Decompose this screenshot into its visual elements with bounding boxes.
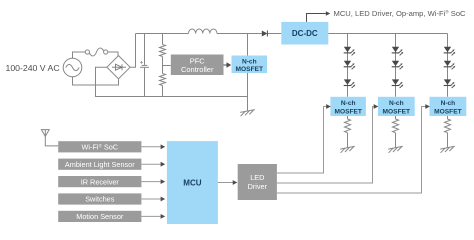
svg-text:MOSFET: MOSFET [383, 108, 410, 115]
wire LED driver out 3 [277, 107, 426, 194]
arrow Wi-Fi SoC to MCU [141, 144, 165, 149]
svg-text:MCU, LED Driver, Op-amp, Wi-Fi: MCU, LED Driver, Op-amp, Wi-Fi® SoC [334, 8, 467, 18]
svg-text:MOSFET: MOSFET [334, 108, 361, 115]
wire Q2 source [347, 116, 349, 119]
wire R5 to ground [447, 133, 449, 148]
wire LED string 1 [347, 34, 349, 97]
ground G1 [240, 110, 255, 117]
svg-text:100-240 V AC: 100-240 V AC [6, 63, 60, 73]
ground G4 [440, 146, 455, 153]
svg-text:Switches: Switches [85, 195, 115, 204]
arrow Switches to MCU [141, 197, 165, 202]
LED D10 [444, 61, 456, 70]
svg-text:Controller: Controller [181, 65, 214, 74]
arrow MCU to LED Driver [218, 180, 237, 185]
wire Q4 source [447, 116, 449, 119]
svg-text:N-ch: N-ch [242, 58, 257, 65]
resistor R5 [445, 119, 451, 133]
N-ch MOSFET Q2 [330, 97, 366, 116]
LED D5 [344, 79, 356, 88]
arrow Ambient Light Sensor to MCU [141, 162, 165, 167]
MCU U3 [167, 141, 218, 224]
wire Q3 source [395, 116, 397, 119]
block IR Receiver [58, 176, 141, 187]
wire bridge right vertex up to top rail [130, 34, 135, 68]
block Motion Sensor [58, 211, 141, 222]
wire bridge left vertex to ground rail [96, 67, 248, 96]
LED D9 [444, 47, 456, 56]
LED D3 [344, 47, 356, 56]
LED driver U4 [238, 164, 277, 200]
wire top rail right of DC-DC [328, 33, 447, 35]
svg-text:MCU: MCU [183, 178, 201, 187]
wire top rail right of inductor [217, 33, 262, 35]
arrow into Q3 [374, 104, 379, 109]
AC source V1 [63, 58, 82, 77]
svg-text:LED: LED [250, 173, 264, 182]
wire R4 to ground [395, 133, 397, 148]
svg-text:Motion Sensor: Motion Sensor [76, 212, 124, 221]
LED D6 [392, 47, 404, 56]
ground G3 [388, 146, 403, 153]
wire AC top to fuse [73, 52, 86, 58]
N-ch MOSFET Q4 [430, 97, 467, 116]
PFC controller U1 [171, 55, 224, 76]
bridge rectifier D1 [107, 56, 130, 79]
arrow elbow to annotation [307, 11, 331, 22]
svg-text:Driver: Driver [248, 182, 268, 191]
wire divider bottom [162, 86, 164, 97]
wire LED string 3 [447, 34, 449, 97]
DC-DC converter U2 [281, 22, 328, 45]
resistor R1 [160, 45, 166, 57]
bridge diode symbol [112, 64, 126, 70]
arrow IR Receiver to MCU [141, 179, 165, 184]
arrow PFC to MOSFET [224, 62, 232, 68]
wire LED string 2 [395, 34, 397, 97]
N-ch MOSFET Q1 [232, 56, 268, 74]
svg-text:N-ch: N-ch [341, 100, 356, 107]
diode D2 on top rail [262, 31, 282, 37]
wire LED driver out 2 [277, 107, 374, 184]
wire top rail left [136, 33, 189, 35]
block Switches [58, 193, 141, 204]
LED D8 [392, 79, 404, 88]
LED D4 [344, 61, 356, 70]
resistor R4 [393, 119, 399, 133]
svg-text:N-ch: N-ch [389, 100, 404, 107]
wire top rail into MOSFET Q1 [247, 34, 249, 56]
arrow into Q2 [326, 104, 331, 109]
svg-text:DC-DC: DC-DC [292, 29, 318, 38]
block Wi-Fi SoC [58, 141, 141, 152]
LED D11 [444, 79, 456, 88]
inductor L1 [189, 29, 217, 34]
wire Q1 source down to ground [247, 73, 249, 111]
wire R3 to ground [347, 133, 349, 148]
antenna ANT1 [41, 130, 58, 146]
resistor divider line top [162, 34, 164, 45]
wire AC bottom to bridge bottom [73, 77, 119, 85]
plus sign of C1 [140, 61, 143, 64]
wire LED driver out 1 [277, 107, 327, 174]
svg-text:MOSFET: MOSFET [434, 108, 461, 115]
arrow into Q4 [425, 104, 430, 109]
resistor R3 [345, 119, 351, 133]
wire divider tap to PFC [163, 65, 171, 67]
wire divider middle [162, 57, 164, 74]
N-ch MOSFET Q3 [378, 97, 415, 116]
svg-text:IR Receiver: IR Receiver [81, 177, 120, 186]
capacitor C1 [140, 34, 149, 97]
svg-text:N-ch: N-ch [441, 100, 456, 107]
resistor R2 [160, 74, 166, 86]
block Ambient Light Sensor [58, 159, 141, 170]
ground G2 [340, 146, 355, 153]
svg-text:MOSFET: MOSFET [236, 66, 263, 73]
arrow Motion Sensor to MCU [141, 214, 165, 219]
svg-text:Ambient Light Sensor: Ambient Light Sensor [65, 160, 135, 169]
fuse F1 [85, 48, 107, 56]
LED D7 [392, 61, 404, 70]
wire fuse to bridge top [108, 52, 118, 56]
